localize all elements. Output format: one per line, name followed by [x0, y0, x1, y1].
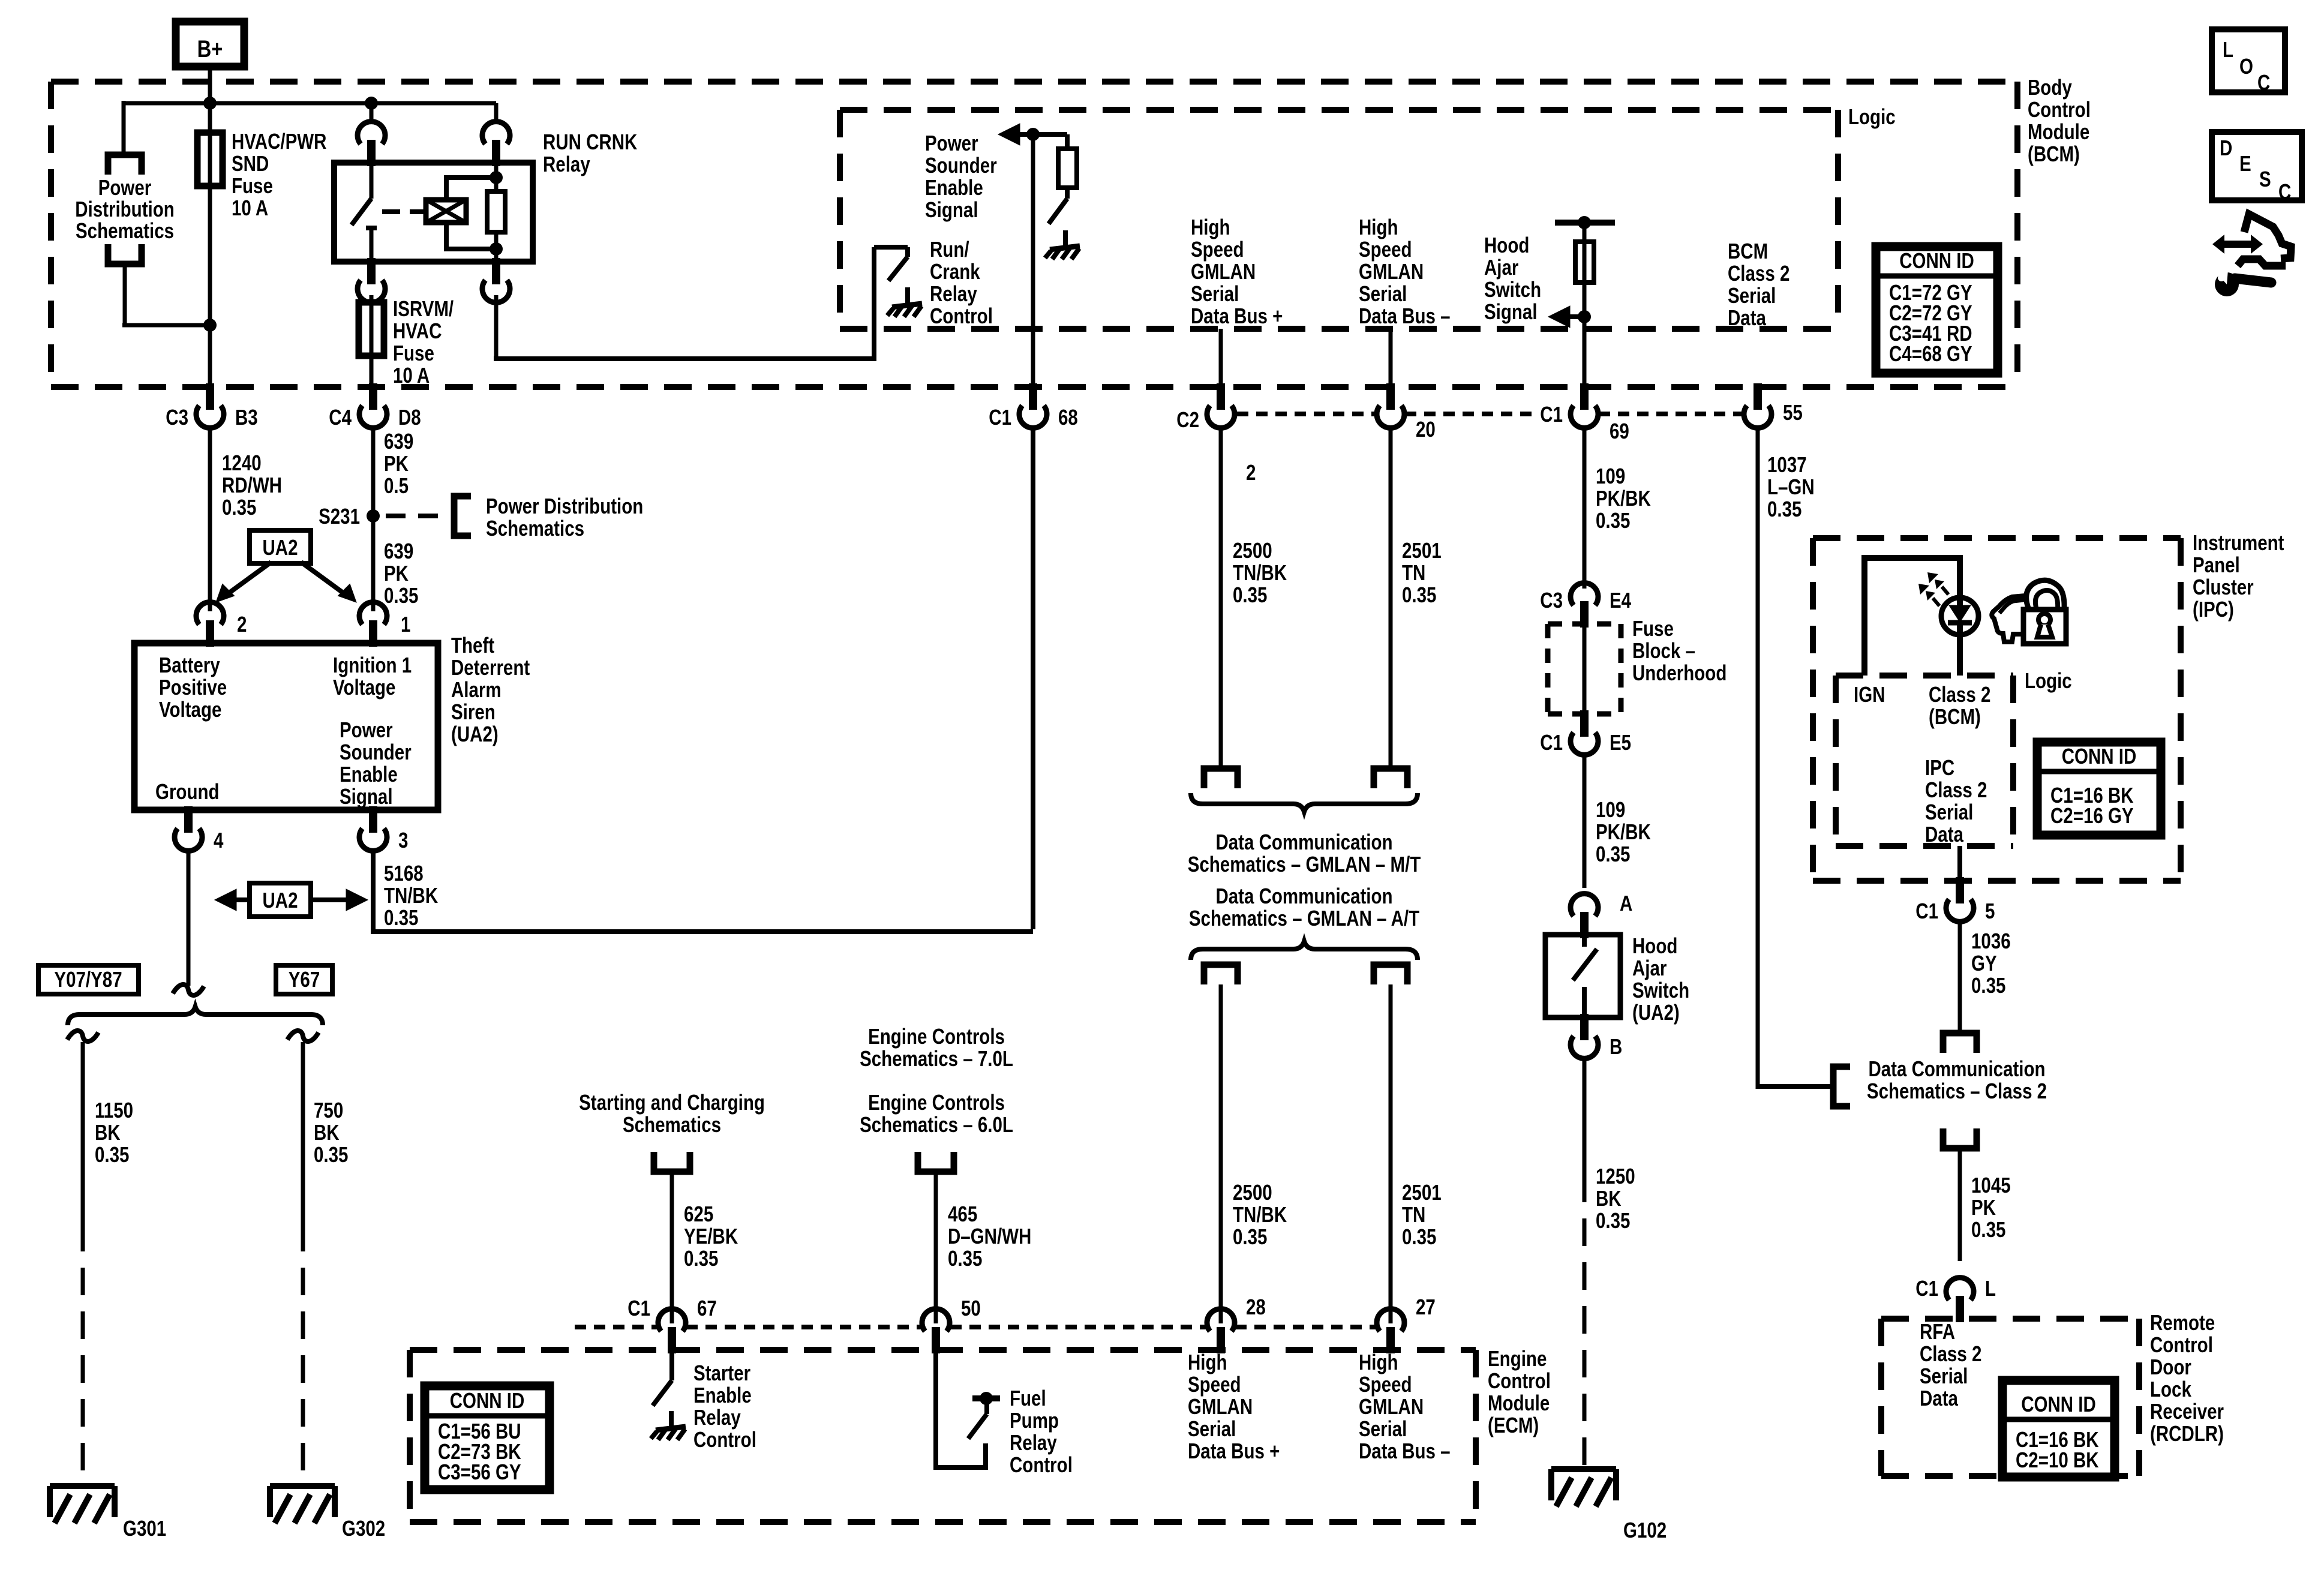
- svg-text:20: 20: [1416, 417, 1436, 441]
- svg-text:2: 2: [237, 612, 247, 636]
- svg-text:CONN ID: CONN ID: [2062, 744, 2137, 768]
- svg-text:C2=16 GY: C2=16 GY: [2050, 803, 2134, 827]
- svg-text:C3=56 GY: C3=56 GY: [438, 1460, 521, 1484]
- svg-text:L: L: [1985, 1276, 1996, 1300]
- svg-text:CONN ID: CONN ID: [2021, 1392, 2096, 1416]
- svg-text:UA2: UA2: [262, 888, 298, 912]
- svg-text:S231: S231: [319, 504, 360, 528]
- svg-text:StarterEnableRelayControl: StarterEnableRelayControl: [693, 1361, 756, 1451]
- svg-text:S: S: [2259, 167, 2271, 191]
- svg-text:Y67: Y67: [289, 967, 320, 991]
- svg-text:B+: B+: [197, 35, 223, 62]
- svg-text:69: 69: [1610, 419, 1629, 443]
- svg-text:Data CommunicationSchematics –: Data CommunicationSchematics – GMLAN – A…: [1189, 884, 1419, 930]
- svg-text:27: 27: [1416, 1295, 1436, 1319]
- svg-text:E4: E4: [1610, 588, 1632, 612]
- svg-text:Engine ControlsSchematics – 6.: Engine ControlsSchematics – 6.0L: [860, 1090, 1013, 1136]
- svg-text:B: B: [1610, 1034, 1622, 1058]
- svg-text:O: O: [2239, 54, 2253, 78]
- svg-text:Logic: Logic: [1848, 104, 1896, 128]
- svg-text:67: 67: [697, 1296, 717, 1320]
- svg-text:C1: C1: [1915, 899, 1938, 923]
- svg-text:E5: E5: [1610, 730, 1631, 754]
- svg-text:Ground: Ground: [155, 779, 220, 803]
- svg-text:55: 55: [1783, 400, 1803, 424]
- svg-text:C2: C2: [1176, 407, 1199, 431]
- svg-text:D: D: [2220, 136, 2232, 160]
- svg-text:5: 5: [1985, 899, 1995, 923]
- svg-text:C: C: [2257, 70, 2270, 94]
- svg-text:C1: C1: [1915, 1276, 1938, 1300]
- svg-text:C: C: [2278, 179, 2291, 203]
- svg-text:Logic: Logic: [2025, 668, 2072, 692]
- svg-text:2: 2: [1246, 460, 1256, 484]
- svg-text:C4=68 GY: C4=68 GY: [1889, 341, 1972, 365]
- svg-text:28: 28: [1246, 1295, 1266, 1319]
- svg-text:D8: D8: [398, 405, 421, 429]
- svg-text:C1: C1: [1540, 402, 1563, 426]
- svg-text:B3: B3: [235, 405, 258, 429]
- svg-text:CONN ID: CONN ID: [450, 1388, 525, 1412]
- svg-text:C1: C1: [1540, 730, 1563, 754]
- svg-text:C2=10 BK: C2=10 BK: [2016, 1448, 2099, 1472]
- svg-text:UA2: UA2: [262, 535, 298, 559]
- svg-text:Y07/Y87: Y07/Y87: [54, 967, 122, 991]
- svg-text:3: 3: [398, 828, 408, 852]
- svg-text:IGN: IGN: [1854, 682, 1885, 706]
- svg-text:C1: C1: [627, 1296, 650, 1320]
- svg-text:L: L: [2223, 37, 2233, 61]
- svg-text:C3: C3: [1540, 588, 1563, 612]
- svg-text:G301: G301: [123, 1516, 166, 1540]
- svg-text:BatteryPositiveVoltage: BatteryPositiveVoltage: [159, 653, 227, 721]
- svg-text:A: A: [1620, 891, 1632, 915]
- svg-text:C3: C3: [166, 405, 188, 429]
- svg-text:50: 50: [961, 1296, 981, 1320]
- svg-text:1: 1: [401, 612, 410, 636]
- svg-text:G102: G102: [1623, 1518, 1667, 1542]
- svg-text:Data CommunicationSchematics –: Data CommunicationSchematics – GMLAN – M…: [1188, 830, 1421, 876]
- svg-text:4: 4: [214, 828, 224, 852]
- svg-text:G302: G302: [342, 1516, 385, 1540]
- svg-text:E: E: [2239, 151, 2251, 175]
- svg-text:C1: C1: [989, 405, 1011, 429]
- svg-text:CONN ID: CONN ID: [1899, 248, 1974, 272]
- svg-text:Engine ControlsSchematics – 7.: Engine ControlsSchematics – 7.0L: [860, 1024, 1013, 1070]
- svg-text:68: 68: [1058, 405, 1078, 429]
- svg-text:Data CommunicationSchematics –: Data CommunicationSchematics – Class 2: [1867, 1056, 2047, 1103]
- svg-text:C4: C4: [329, 405, 352, 429]
